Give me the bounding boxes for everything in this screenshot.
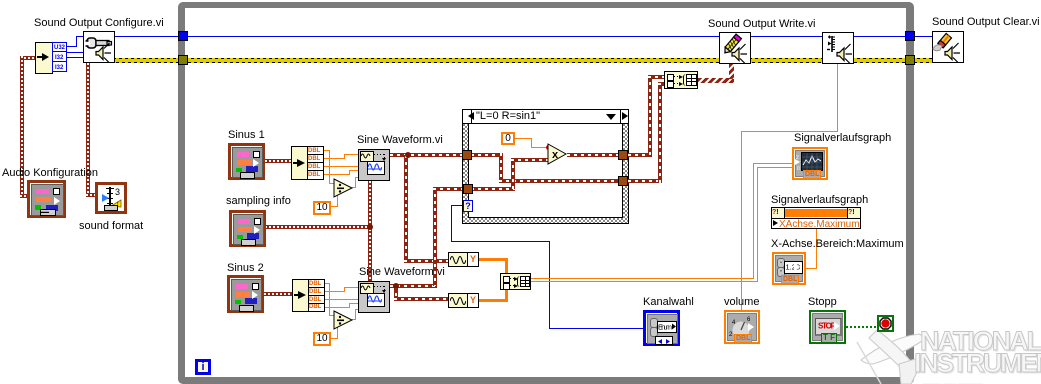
wrench glyph bbox=[87, 38, 96, 48]
loop tunnel task ID right (blue) bbox=[905, 31, 915, 41]
wire Sinus 1 to unbundle bbox=[265, 159, 292, 163]
control Sinus 2 bbox=[227, 275, 264, 313]
control Kanalwahl (enum) bbox=[643, 310, 680, 346]
junction sine2 bbox=[393, 283, 399, 289]
label X-Achse.Bereich:Maximum bbox=[771, 239, 904, 250]
label Sound Output Configure.vi bbox=[34, 18, 164, 29]
svg-text:INSTRUMEN: INSTRUMEN bbox=[914, 348, 1041, 378]
wire case tunnel RA to build array 1 bbox=[628, 153, 652, 157]
label sampling info bbox=[226, 196, 291, 207]
control sound format bbox=[95, 182, 127, 214]
divide node 1 bbox=[333, 178, 354, 198]
label Kanalwahl bbox=[643, 297, 694, 308]
property node Signalverlaufsgraph bbox=[771, 207, 861, 229]
wire 10 to divide2 bbox=[330, 338, 338, 339]
case tunnel left A bbox=[462, 150, 472, 160]
loop condition terminal (stop sign) bbox=[877, 315, 894, 332]
wire sine2 out junction to case tunnel B bbox=[390, 284, 437, 288]
wire divide1 to sine1 bbox=[352, 187, 356, 188]
wire volume knob to Sound Output Set Volume.vi bbox=[741, 131, 742, 310]
control Stopp (STOP button) bbox=[809, 310, 846, 344]
VI Sound Output Clear.vi icon bbox=[932, 31, 964, 63]
control X-Achse numeric 1.23 bbox=[772, 252, 806, 285]
control volume (knob) bbox=[724, 310, 760, 344]
unbundle node 2 (4x DBL) bbox=[292, 279, 309, 312]
svg-text:Enum: Enum bbox=[658, 323, 672, 332]
wire sine1 waveform to upper Y node done above; upper Y node bbox=[448, 252, 468, 267]
unbundle U32/I32/I32 node bbox=[35, 42, 53, 74]
wire error cluster (yellow/black dashed, top) bbox=[113, 58, 933, 63]
wire sine2 branch down to lower Y node bbox=[394, 286, 398, 299]
lower Y node bbox=[448, 293, 468, 308]
wire task ID (blue, top) bbox=[113, 36, 933, 37]
wire lower Y to build array 2 (thick orange) bbox=[479, 299, 508, 302]
wire 0 to multiply bbox=[515, 138, 532, 139]
case header bbox=[462, 109, 629, 124]
wire Stopp to loop condition (green dotted) bbox=[846, 326, 877, 328]
wire multiply out to tunnel RA bbox=[567, 153, 619, 157]
wire sampling info to sine VIs bbox=[265, 225, 370, 229]
VI Sound Output Set Volume.vi icon bbox=[822, 32, 854, 64]
label Sound Output Write.vi bbox=[708, 19, 815, 30]
wire sine1 branch down to upper Y node bbox=[404, 155, 408, 261]
case inner: constant 0 bbox=[501, 132, 515, 145]
wire numeric to property node bbox=[806, 268, 817, 269]
wire build array 2 to graph (2D array, double orange) bbox=[531, 278, 754, 279]
wires unbundle1 to divide1 and sine1 bbox=[323, 150, 330, 151]
constant 10 (for divide 2) bbox=[313, 332, 331, 346]
svg-text:▁▁▁ ▁▁ ▁▁▁▁: ▁▁▁ ▁▁ ▁▁▁▁ bbox=[922, 376, 984, 384]
junction sampling info bbox=[367, 224, 373, 230]
speaker glyph bbox=[96, 47, 103, 60]
label Sinus 1 bbox=[228, 130, 265, 141]
case tunnel left B bbox=[463, 184, 473, 194]
unbundle node 1 (4x DBL) bbox=[291, 146, 308, 180]
label Signalverlaufsgraph (graph) bbox=[794, 133, 891, 144]
divide node 2 bbox=[333, 310, 354, 330]
wire cluster from sound format up to Configure.vi bbox=[86, 63, 90, 196]
case inner wires: tunnel A to tunnel B route bbox=[471, 153, 503, 157]
wire upper Y to build array 2 (thick orange) bbox=[479, 258, 508, 261]
while loop border bbox=[178, 2, 914, 384]
label Signalverlaufsgraph (property) bbox=[771, 195, 868, 206]
wire sine1 out to case tunnel A bbox=[390, 153, 463, 157]
wire selector ? to Kanalwahl enum (blue) bbox=[451, 205, 464, 206]
build array node 2 bbox=[500, 273, 531, 290]
VI Sound Output Configure.vi icon bbox=[83, 31, 115, 63]
VI Sound Output Write.vi icon bbox=[719, 32, 751, 64]
coercion dot multiply bbox=[546, 145, 551, 150]
label Audio Konfiguration bbox=[2, 168, 98, 179]
control sampling info bbox=[229, 210, 266, 247]
case tunnel right B bbox=[618, 176, 628, 186]
loop tunnel error right (olive) bbox=[905, 55, 915, 65]
case interior white bbox=[468, 123, 623, 218]
control Audio Konfiguration bbox=[27, 180, 66, 218]
case inner: tunnel B to multiply bbox=[471, 187, 515, 191]
label Sound Output Clear.vi bbox=[932, 17, 1040, 28]
label Stopp bbox=[808, 297, 837, 308]
wire build array 1 to Sound Output Write.vi bbox=[698, 78, 734, 83]
loop tunnel task ID left (blue) bbox=[178, 31, 188, 41]
wire divide2 to sine2 bbox=[352, 319, 356, 320]
VI Sine Waveform.vi 2 bbox=[358, 281, 390, 313]
wire cluster from Audio Konfiguration up to unbundle bbox=[20, 56, 36, 60]
constant 10 (for divide 1) bbox=[313, 201, 331, 215]
loop iteration terminal i bbox=[195, 359, 211, 375]
multiply node bbox=[547, 143, 568, 165]
wires U32/I32 to Configure.vi bbox=[67, 46, 77, 47]
control Sinus 1 bbox=[228, 143, 265, 180]
svg-text:x: x bbox=[552, 149, 559, 161]
case selector terminal ? bbox=[463, 200, 473, 212]
wire 10 to divide1 bbox=[330, 206, 338, 207]
label Sine Waveform.vi 1 bbox=[357, 135, 443, 146]
VI Sine Waveform.vi 1 bbox=[358, 149, 390, 181]
junction sine1 bbox=[405, 152, 411, 158]
indicator Signalverlaufsgraph (waveform graph terminal) bbox=[792, 147, 828, 180]
wire Sinus 2 to unbundle bbox=[264, 292, 293, 296]
label Sine Waveform.vi 2 bbox=[359, 267, 445, 278]
label sound format bbox=[79, 221, 143, 232]
loop tunnel error left (olive) bbox=[178, 55, 188, 65]
label Sinus 2 bbox=[227, 263, 264, 274]
case structure bbox=[462, 109, 629, 224]
label volume bbox=[724, 297, 759, 308]
wire case tunnel RB to build array 1 bbox=[628, 179, 662, 183]
case tunnel right A bbox=[618, 150, 628, 160]
wires unbundle2 to divide2 and sine2 bbox=[323, 283, 330, 284]
build array node 1 bbox=[664, 71, 698, 89]
NI watermark bbox=[855, 300, 1041, 384]
